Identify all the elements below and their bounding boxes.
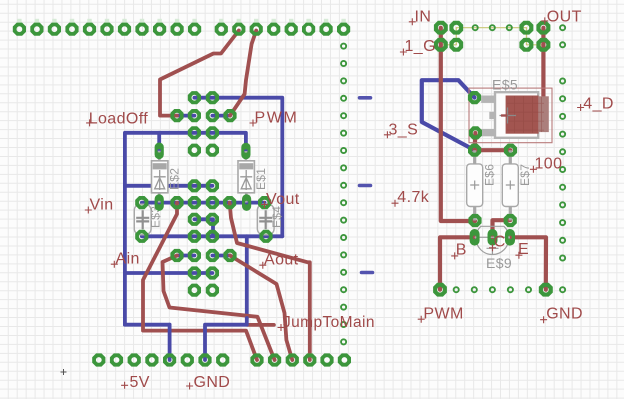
svg-text:IN: IN bbox=[415, 8, 432, 25]
transistor E$9 outline bbox=[476, 226, 509, 254]
svg-text:E$6: E$6 bbox=[483, 164, 497, 186]
pads IN header bbox=[434, 21, 463, 52]
wire blue row1 links bbox=[177, 114, 194, 118]
pads E$9 B C E bbox=[470, 229, 480, 246]
svg-text:LoadOff: LoadOff bbox=[89, 111, 149, 128]
module pads row r7 bbox=[188, 213, 219, 226]
wire blue row8 bbox=[142, 234, 282, 238]
wire blue row6 Vin-Vout bbox=[142, 201, 265, 205]
op component E$5 outline box bbox=[469, 88, 552, 143]
pad E$2 bottom bbox=[155, 194, 164, 211]
svg-text:E$2: E$2 bbox=[168, 168, 182, 190]
module pads row r0 bbox=[188, 91, 219, 104]
wire blue row10 bbox=[125, 271, 212, 275]
svg-text:E$1: E$1 bbox=[254, 168, 268, 190]
svg-text:E$9: E$9 bbox=[486, 255, 512, 271]
wire red 1_G IN down to E$6 bottom bbox=[441, 28, 475, 221]
capacitor E$3 body bbox=[134, 204, 151, 235]
tPlace marks above header pads bbox=[17, 19, 346, 25]
module pads row r2 bbox=[188, 126, 219, 139]
E$5 origin cross bbox=[500, 108, 517, 124]
wire blue net1: row0 to right edge down to row8 bbox=[194, 98, 282, 237]
wire blue 5V drop over red bbox=[168, 325, 172, 360]
wire blue dash 1 bbox=[360, 96, 371, 100]
wire blue 3_S route around E$5 bbox=[422, 80, 475, 150]
wire red PWM from header bbox=[230, 31, 256, 116]
pad E$1 top bbox=[241, 143, 250, 160]
wire red stub near blue elbow bbox=[248, 323, 274, 327]
transistor E$5 body bbox=[481, 96, 495, 103]
svg-text:PWM: PWM bbox=[255, 110, 299, 127]
bottom header 5V/GND pads bbox=[92, 353, 229, 366]
svg-text:Vin: Vin bbox=[90, 197, 114, 214]
module pads row r9 bbox=[170, 249, 236, 262]
module pads row r10 bbox=[188, 266, 219, 279]
top header row B pads bbox=[215, 23, 351, 36]
via column right of right module bbox=[560, 25, 565, 292]
pad PWM bbox=[433, 283, 447, 297]
wire blue GND drop over red bbox=[205, 318, 247, 360]
wire red B to PWM pad bbox=[440, 237, 475, 289]
svg-text:Aout: Aout bbox=[264, 252, 299, 269]
svg-text:Ain: Ain bbox=[116, 251, 140, 268]
airwire net OUT top bbox=[456, 27, 526, 29]
wire blue box left edge + top edge to E$1 pad bbox=[125, 133, 246, 325]
svg-text:PWM: PWM bbox=[423, 306, 463, 323]
wire blue stub to E$2 top pad bbox=[157, 133, 161, 151]
pads OUT header bbox=[519, 21, 550, 52]
via row bottom of right module bbox=[454, 287, 531, 292]
svg-text:Vout: Vout bbox=[266, 191, 300, 208]
pads E$5 pins bbox=[468, 91, 481, 104]
wire blue row5 bbox=[125, 184, 212, 188]
svg-text:E$5: E$5 bbox=[492, 76, 518, 92]
svg-text:JumpToMain: JumpToMain bbox=[283, 314, 375, 331]
svg-text:E$7: E$7 bbox=[518, 164, 532, 186]
wire red T3 row9 to bottom pad3 bbox=[230, 256, 292, 361]
wire red LoadOff from header bbox=[160, 31, 239, 116]
via row top of right module bbox=[473, 25, 512, 30]
diode E$1 body bbox=[245, 151, 248, 203]
wire red resistor tops link bbox=[475, 148, 511, 152]
svg-text:1_G: 1_G bbox=[405, 38, 436, 55]
top header row A pads bbox=[13, 23, 201, 36]
airwire IN corner bbox=[441, 28, 457, 45]
wire red T2 row9 to bottom pad2 bbox=[163, 256, 275, 361]
svg-text:GND: GND bbox=[546, 306, 583, 323]
wire red E to GND pad bbox=[510, 237, 546, 289]
module pads row r11 bbox=[188, 284, 219, 297]
svg-text:100: 100 bbox=[535, 155, 563, 172]
bottom header right pads bbox=[250, 353, 351, 366]
pads E$7 bbox=[504, 144, 517, 157]
module pads row r6 bbox=[135, 196, 271, 209]
wire red E$7 bottom to C bbox=[493, 220, 511, 237]
capacitor E$4 body bbox=[257, 204, 274, 235]
wire red OUT 4_D down to tab bbox=[541, 28, 545, 98]
svg-text:5V: 5V bbox=[130, 374, 150, 391]
resistor E$7 100 bbox=[509, 150, 512, 220]
pad GND bbox=[539, 283, 553, 297]
wire red E$5 pin2 to E$6 top bbox=[473, 133, 478, 150]
svg-text:3_S: 3_S bbox=[389, 121, 419, 138]
wire blue row9 links bbox=[177, 254, 194, 258]
drill mark bottom left bbox=[61, 369, 67, 375]
wire red T4 row6 to bottom pad4 bbox=[230, 203, 310, 360]
transistor E$5 tab bbox=[506, 96, 539, 134]
wire blue row7 link down to row8 bbox=[194, 219, 213, 236]
module pads row r5 bbox=[188, 179, 219, 192]
E$9 origin cross bbox=[487, 242, 499, 254]
via column left of right module bbox=[341, 44, 346, 345]
wire blue dash 2 bbox=[360, 184, 371, 188]
module pads row r8 bbox=[135, 230, 272, 243]
module pads row r3 bbox=[188, 144, 219, 157]
svg-text:E$4: E$4 bbox=[270, 206, 284, 228]
wire blue dash 3 bbox=[362, 271, 373, 275]
svg-text:4_D: 4_D bbox=[583, 96, 614, 113]
pads E$6 bbox=[468, 144, 481, 157]
wire blue row8 branch down (upper) bbox=[245, 236, 249, 318]
svg-text:GND: GND bbox=[194, 374, 231, 391]
svg-text:OUT: OUT bbox=[547, 8, 582, 25]
module pads row r1 bbox=[170, 109, 236, 122]
resistor E$6 4.7k bbox=[473, 150, 476, 220]
diode E$2 body bbox=[158, 151, 161, 203]
wire red T1 row6 to bottom pad1 bbox=[143, 203, 257, 360]
pad E$2 top bbox=[155, 143, 164, 160]
wire blue box bottom edge bbox=[125, 323, 170, 327]
pad E$1 bottom bbox=[242, 194, 251, 211]
airwire OUT corner bbox=[526, 28, 543, 45]
svg-text:4.7k: 4.7k bbox=[397, 189, 429, 206]
